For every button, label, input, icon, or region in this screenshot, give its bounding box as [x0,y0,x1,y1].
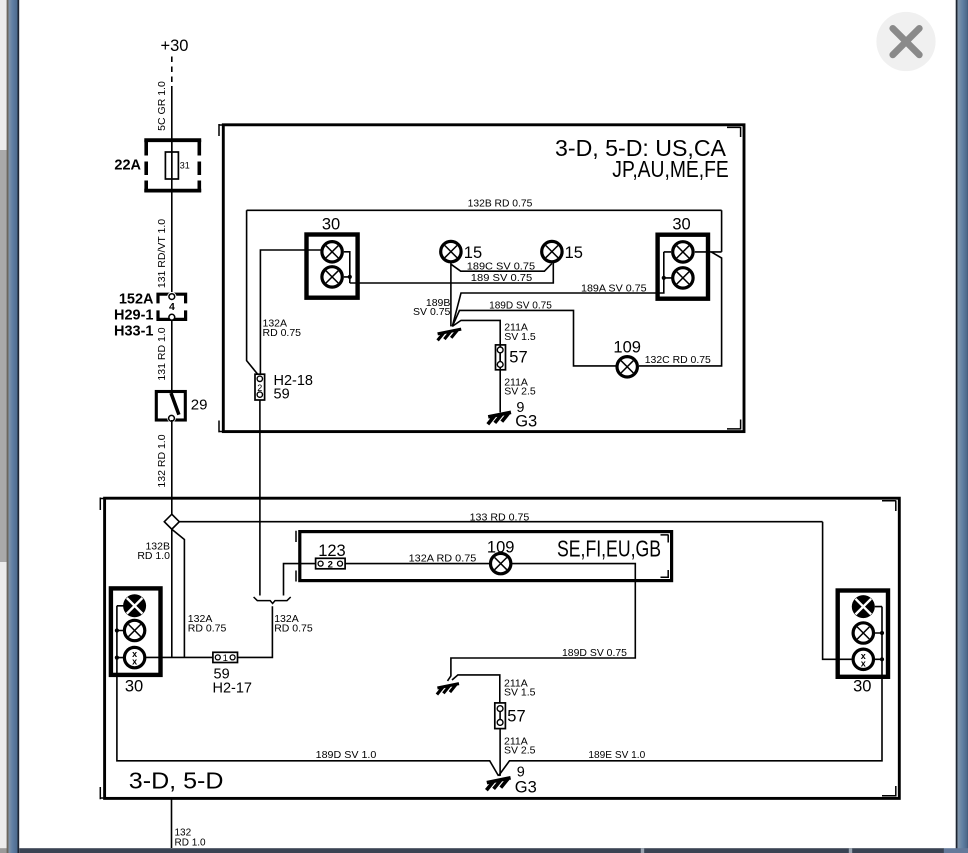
lamp lower-right A filled [852,595,875,618]
svg-text:132B RD 0.75: 132B RD 0.75 [468,198,533,210]
svg-text:30: 30 [125,678,143,696]
svg-text:189A SV 0.75: 189A SV 0.75 [581,282,647,294]
svg-text:3-D, 5-D: 3-D, 5-D [129,768,224,794]
fuse 22A [114,140,201,194]
browser scrollbar track left [0,0,8,853]
svg-text:G3: G3 [515,413,537,431]
svg-text:31: 31 [180,161,190,171]
wire 132A RD 0.75 in SE box [345,552,490,564]
wire 211A SV 2.5 lower [500,729,536,776]
ground 9 G3 upper [488,400,537,430]
bottom bar separator 2 [849,848,852,853]
wire from connector 59 to brace [238,606,273,657]
wire 132B RD 0.75 rail [247,198,722,375]
wire feed to lower right cluster [823,522,852,660]
wire riser to connector 123 [284,564,316,596]
bottom bar right corner segment [944,848,968,853]
lamp upper-right B [673,268,693,288]
svg-text:22A: 22A [114,158,141,174]
lamp cluster 30 upper left [307,216,358,298]
lamp cluster 30 lower right [838,591,888,696]
svg-text:15: 15 [565,244,583,262]
lamp cluster 30 upper right [658,216,708,299]
connector H2-18 pin 2 [255,373,313,403]
fuse 57 lower [495,703,526,729]
svg-text:132C RD 0.75: 132C RD 0.75 [645,354,711,366]
wire 189E SV 1.0 [499,607,883,776]
left sidebar navy border [18,0,20,853]
svg-text:133 RD 0.75: 133 RD 0.75 [470,511,530,523]
cluster internal wiring [117,606,125,658]
svg-text:G3: G3 [515,778,537,796]
ground 189B [438,329,462,340]
svg-text:132 RD 1.0: 132 RD 1.0 [156,434,168,487]
connector 123 pin 2 [316,542,346,571]
svg-text:JP,AU,ME,FE: JP,AU,ME,FE [612,156,729,182]
svg-text:x: x [861,658,866,668]
lamp upper-left B [322,267,342,287]
lamp upper-left A [322,242,342,262]
svg-text:5C GR 1.0: 5C GR 1.0 [156,81,168,131]
wire 132C RD 0.75 [639,210,722,366]
svg-text:132A RD 0.75: 132A RD 0.75 [409,552,477,564]
svg-text:2: 2 [328,559,333,570]
svg-text:189C SV 0.75: 189C SV 0.75 [467,260,535,272]
svg-text:SV 1.5: SV 1.5 [504,331,536,343]
wire 189B SV 0.75 [413,262,451,327]
lamp 15 left [441,241,482,262]
lamp upper-right A [673,242,693,262]
svg-text:123: 123 [318,542,346,560]
right sidebar blue bar [958,0,968,853]
svg-text:30: 30 [672,216,690,234]
connector 152A H29-1 H33-1 [114,292,186,340]
wire 211A SV 1.5 upper [452,320,536,344]
svg-text:RD 0.75: RD 0.75 [188,623,227,635]
browser scrollbar bottom-left segment [0,848,8,853]
svg-text:189 SV 0.75: 189 SV 0.75 [471,272,533,284]
switch 29 [156,392,207,423]
lamp 109 upper [613,338,641,377]
lamp lower-left B [124,620,144,640]
box SE,FI,EU,GB [296,531,672,582]
wire 189D SV 0.75 lower [448,564,636,681]
wire dashed from +30 [171,57,173,87]
svg-text:152A: 152A [119,292,154,308]
svg-text:x: x [132,657,137,667]
wire 132A RD 0.75 right of brace [274,613,313,635]
lamp lower-right C parking [853,649,873,669]
wire 211A SV 1.5 lower [452,675,536,703]
svg-text:1: 1 [223,653,228,664]
svg-text:109: 109 [613,338,641,356]
svg-text:57: 57 [507,708,525,726]
left sidebar dark inner edge [7,0,9,853]
svg-text:189D SV 1.0: 189D SV 1.0 [316,749,377,761]
fuse 57 upper [496,344,528,371]
svg-text:SV 2.5: SV 2.5 [504,386,536,398]
svg-text:59: 59 [274,387,290,403]
svg-text:30: 30 [322,216,340,234]
svg-text:H33-1: H33-1 [114,324,154,340]
wire 189A SV 0.75 [452,252,672,327]
lamp 15 right [542,241,583,262]
wire 131 RD 1.0 [156,321,172,392]
svg-text:H29-1: H29-1 [114,308,154,324]
browser scrollbar thumb left [0,150,8,562]
lamp lower-right B [853,623,873,643]
wire 132 RD 1.0 continuation [172,798,207,848]
wire 132A RD 0.75 lower-left [145,529,226,657]
node junction diamond [164,514,179,529]
svg-text:RD 0.75: RD 0.75 [274,623,313,635]
lamp 109 lower [487,539,515,574]
wire 133 RD 0.75 [179,511,822,523]
bottom bar separator 1 [641,848,644,853]
lower box 3-D 5-D [100,498,900,800]
right sidebar navy border [956,0,958,853]
svg-text:SV 1.5: SV 1.5 [504,686,536,698]
svg-text:RD 1.0: RD 1.0 [137,550,170,562]
wire 132A RD 0.75 upper-left [260,250,320,374]
svg-text:189D SV 0.75: 189D SV 0.75 [562,647,627,659]
wire joint brace [254,597,291,604]
svg-text:131 RD/VT 1.0: 131 RD/VT 1.0 [156,219,168,288]
connector 59 H2-17 pin 1 [213,652,253,696]
wire riser to H2-18 [259,400,261,595]
svg-text:H2-17: H2-17 [213,681,253,697]
lamp lower-left C parking [124,647,144,667]
bottom bar [19,848,944,853]
svg-text:189D SV 0.75: 189D SV 0.75 [489,299,552,311]
wire 189C SV 0.75 [451,260,552,272]
wire 131 RD/VT 1.0 [156,193,172,294]
svg-text:131 RD 1.0: 131 RD 1.0 [156,327,168,380]
lamp lower-left A filled [123,594,146,617]
ground lower mid [437,684,459,695]
svg-text:189E SV 1.0: 189E SV 1.0 [588,749,645,761]
svg-text:SV 0.75: SV 0.75 [413,306,451,318]
svg-text:+30: +30 [161,37,189,55]
wire 189D SV 0.75 upper [452,299,617,366]
svg-text:RD 1.0: RD 1.0 [175,838,207,849]
lamp cluster 30 lower left [111,588,161,695]
svg-text:109: 109 [487,539,515,557]
cluster internal wiring [344,252,350,283]
wire 189D SV 1.0 [117,606,499,776]
svg-text:15: 15 [464,244,482,262]
wire 132 RD 1.0 [156,420,172,514]
svg-text:30: 30 [853,678,871,696]
wire 211A SV 2.5 upper [500,371,536,413]
close button [876,12,935,71]
left sidebar blue bar [9,0,18,853]
svg-text:57: 57 [509,349,527,367]
svg-text:SV 2.5: SV 2.5 [504,744,536,756]
cluster internal wiring [874,607,882,660]
svg-text:SE,FI,EU,GB: SE,FI,EU,GB [557,536,661,562]
upper box 3-D 5-D US,CA [219,124,745,432]
svg-text:4: 4 [169,301,175,313]
wire 5C GR 1.0 [156,81,172,152]
svg-text:RD 0.75: RD 0.75 [263,327,302,339]
wire 132B RD 1.0 drop [137,529,171,657]
svg-text:29: 29 [191,397,208,414]
ground 9 G3 lower [486,764,536,796]
wire 189 SV 0.75 [350,263,554,284]
